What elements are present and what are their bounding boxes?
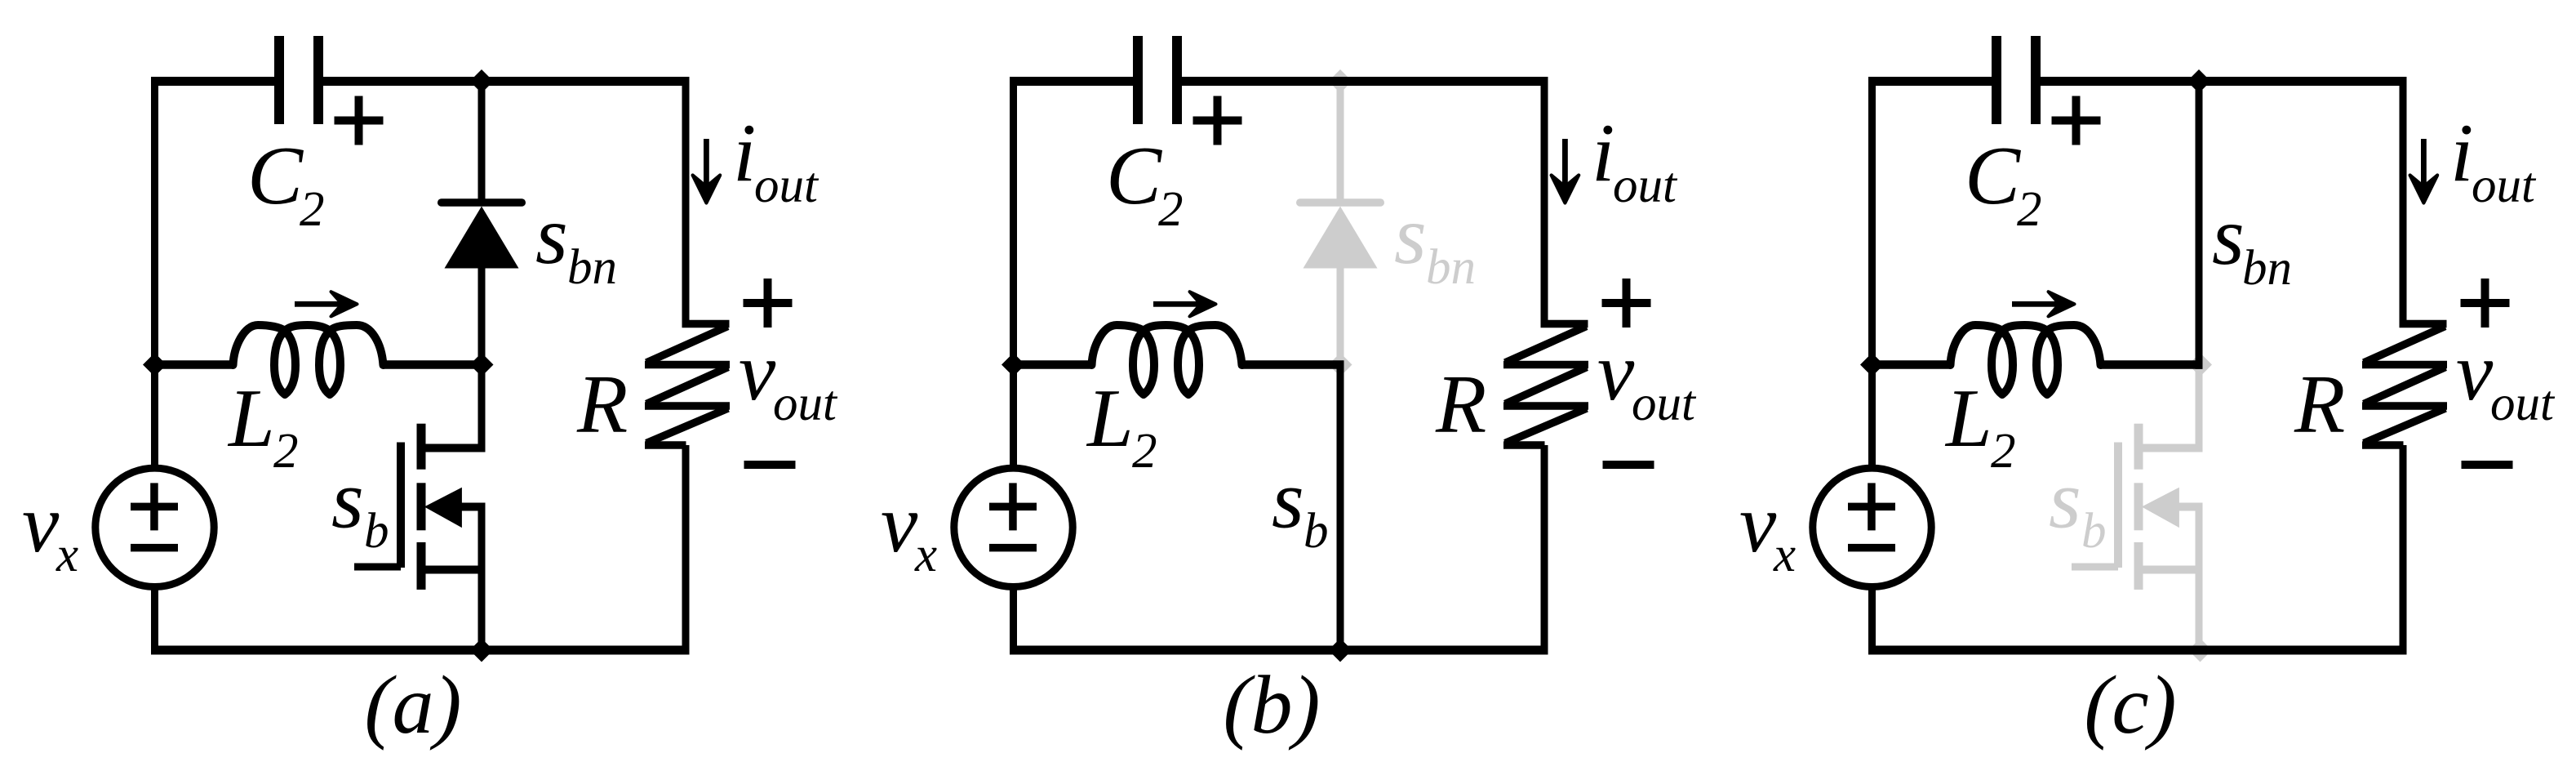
diode Sbn (conducting path closed) [437,78,526,365]
wire right rail lower (resistor R to bottom corner) [1541,445,1548,655]
label iout [2450,107,2537,213]
arrow iout (output current) [693,139,721,203]
wire left rail lower (source to bottom corner) [1868,587,1876,655]
junction node at top rail [470,69,494,93]
svg-text:L: L [1086,372,1134,465]
junction node at bottom rail [470,639,494,662]
label L2 [227,372,299,479]
label Sb [1272,454,1329,559]
voltage source vx [1813,468,1931,586]
polarity + of C2 [1193,96,1242,145]
wire inductor row right (L2 to middle branch) [1241,360,1344,369]
capacitor C2 [274,36,323,124]
svg-text:(b): (b) [1224,659,1321,751]
label Sb (gray) [2049,454,2107,559]
arrow iout (output current) [2410,139,2438,203]
label vx [881,478,937,582]
label L2 [1086,372,1157,479]
label Sbn [535,189,617,295]
wire right rail lower (resistor R to bottom corner) [2400,445,2407,655]
wire left rail lower (source to bottom corner) [1010,587,1017,655]
label vx [1739,478,1796,582]
wire left rail upper (source to top corner) [1010,77,1017,468]
svg-text:out: out [773,377,838,431]
wire right rail lower (resistor R to bottom corner) [682,445,690,655]
diode Sbn (inactive, gray) [1296,78,1384,372]
polarity + of C2 [335,96,384,145]
label vx [22,478,78,582]
wire bottom rail [151,646,690,655]
svg-text:s: s [535,189,568,282]
voltage source vx [954,468,1073,586]
svg-text:bn: bn [1426,240,1476,295]
label vout [1597,326,1697,431]
svg-text:R: R [576,359,628,451]
label L2 [1944,372,2016,479]
svg-text:bn: bn [567,240,617,295]
label vout [2456,326,2556,431]
label iout [1592,107,1678,213]
svg-text:C: C [1965,130,2021,222]
junction node at bottom rail [1329,639,1352,662]
svg-text:s: s [2212,190,2245,283]
junction node (gray, Sbn cathode at inductor node) [1329,353,1352,377]
svg-text:R: R [2294,359,2345,451]
svg-text:out: out [2472,158,2537,213]
caption (a) [365,659,462,751]
wire bottom rail [1010,646,1548,655]
current arrow above L2 [1153,292,1216,316]
wire left rail lower (source to bottom corner) [151,587,158,655]
inductor L2 [233,325,384,394]
junction node at inductor row [470,353,494,377]
junction node (gray, Sb source at bottom rail) [2188,639,2212,662]
label R [1435,359,1486,451]
svg-text:R: R [1435,359,1486,451]
transistor Sb (MOSFET) [354,365,486,655]
svg-text:2: 2 [1158,182,1184,237]
arrow iout (output current) [1552,139,1579,203]
svg-text:v: v [22,478,60,570]
resistor R [1503,320,1588,449]
svg-text:(a): (a) [365,659,462,751]
svg-text:v: v [1739,478,1777,570]
svg-text:x: x [914,528,937,582]
polarity + of C2 [2052,96,2101,145]
wire inductor row right (L2 to middle branch) [2100,360,2203,369]
svg-text:i: i [1592,107,1614,199]
svg-text:v: v [739,326,776,418]
svg-text:2: 2 [1991,424,2016,479]
wire left rail upper (source to top corner) [151,77,158,468]
caption (c) [2084,659,2176,751]
wire inductor row left (left rail to L2) [151,360,233,369]
svg-text:bn: bn [2242,241,2292,296]
wire top-right (C2 right plate to right rail corner) [1181,77,1548,86]
label Sbn (gray) [1394,189,1476,295]
capacitor C2 [1133,36,1182,124]
svg-text:L: L [1944,372,1992,465]
wire right rail upper (top corner to resistor R) [682,77,690,323]
svg-text:x: x [1773,528,1796,582]
wire top-right (C2 right plate to right rail corner) [2040,77,2407,86]
wire top-left (C2 left plate to left rail corner) [1010,77,1134,86]
wire inductor row left (left rail to L2) [1868,360,1951,369]
label R [576,359,628,451]
svg-text:v: v [2456,326,2494,418]
wire top-right (C2 right plate to right rail corner) [322,77,690,86]
svg-text:s: s [1272,454,1304,546]
junction node at top rail [2187,69,2211,93]
svg-text:2: 2 [300,182,325,237]
resistor R [2362,320,2447,449]
inductor L2 [1951,325,2101,394]
label Sb [331,454,389,559]
junction node (gray, Sb drain at inductor node) [2188,353,2212,377]
caption (b) [1224,659,1321,751]
junction node at left rail / inductor row [1860,353,1884,377]
label iout [733,107,819,213]
label C2 [1965,130,2042,237]
polarity + of vout [1602,279,1651,328]
wire inductor row right (L2 to middle branch) [383,360,486,369]
svg-text:out: out [754,158,819,213]
svg-text:s: s [2049,454,2081,546]
wire left rail upper (source to top corner) [1868,77,1876,468]
svg-text:s: s [331,454,364,546]
label R [2294,359,2345,451]
svg-text:out: out [2490,377,2556,431]
polarity + of vout [2461,279,2510,328]
wire inductor row left (left rail to L2) [1010,360,1092,369]
polarity − of vout [744,461,796,469]
svg-text:2: 2 [2017,182,2042,237]
inductor L2 [1092,325,1242,394]
junction node (gray, Sbn anode at top rail) [1329,69,1352,93]
svg-text:2: 2 [1132,424,1157,479]
wire right rail upper (top corner to resistor R) [1541,77,1548,323]
wire top-left (C2 left plate to left rail corner) [151,77,275,86]
resistor R [645,320,730,449]
svg-text:(c): (c) [2084,659,2176,751]
svg-text:x: x [56,528,78,582]
wire Sbn branch (switch Sbn closed, straight wire) [2196,77,2203,369]
svg-text:C: C [1106,130,1162,222]
wire Sb branch (switch Sb closed, straight wire) [1337,362,1344,655]
svg-text:b: b [2081,504,2107,559]
polarity − of vout [1603,461,1654,469]
label C2 [247,130,325,237]
svg-text:out: out [1632,377,1697,431]
svg-text:i: i [733,107,756,199]
junction node at left rail / inductor row [143,353,167,377]
svg-text:L: L [227,372,275,465]
label C2 [1106,130,1184,237]
current arrow above L2 [2012,292,2075,316]
polarity + of vout [744,279,793,328]
svg-text:C: C [247,130,304,222]
wire right rail upper (top corner to resistor R) [2400,77,2407,323]
polarity − of vout [2462,461,2513,469]
current arrow above L2 [295,292,358,316]
junction node at left rail / inductor row [1002,353,1025,377]
voltage source vx [95,468,214,586]
wire top-left (C2 left plate to left rail corner) [1868,77,1992,86]
svg-text:v: v [881,478,918,570]
svg-text:i: i [2450,107,2473,199]
wire bottom rail [1868,646,2407,655]
svg-text:2: 2 [273,424,299,479]
svg-text:v: v [1597,326,1635,418]
capacitor C2 [1992,36,2041,124]
svg-text:b: b [364,504,389,559]
svg-text:b: b [1304,504,1329,559]
transistor Sb (inactive, gray MOSFET) [2072,365,2203,655]
label Sbn [2212,190,2292,296]
label vout [739,326,838,431]
svg-text:s: s [1394,189,1427,282]
svg-text:out: out [1613,158,1678,213]
